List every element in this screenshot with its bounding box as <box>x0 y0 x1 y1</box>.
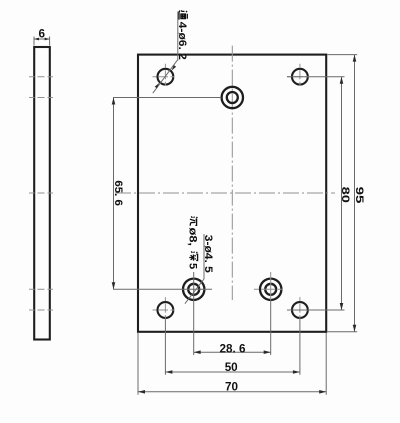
hole TR (ø6.2) <box>292 69 308 85</box>
dimension 65.6 text <box>112 180 124 206</box>
leader bottom text 沉ø8, 深5 <box>187 216 199 269</box>
leader bottom vertical line <box>203 234 205 279</box>
svg-text:95: 95 <box>353 187 365 204</box>
side view centerline middle <box>29 192 56 194</box>
dimension 80 arrow bottom <box>340 303 344 310</box>
counterbored hole bottom-right <box>260 279 281 300</box>
dimension 80 extension top <box>287 76 345 78</box>
svg-text:5: 5 <box>187 263 199 269</box>
plate front view outline <box>138 55 326 332</box>
leader bottom text 3-ø4.5 <box>202 235 214 273</box>
hole TL centerlines <box>153 76 179 78</box>
dimension 95 extension bottom <box>327 331 357 333</box>
svg-text:4-ø6. 2: 4-ø6. 2 <box>176 22 188 60</box>
dimension 28.6 arrow left <box>194 350 201 354</box>
side view centerline row1 <box>29 76 56 78</box>
extension line from hole BR down <box>299 319 301 375</box>
dimension 65.6 arrow bottom <box>112 282 116 289</box>
dimension 6 extension lines <box>33 37 35 46</box>
dimension 70 arrow left <box>138 390 145 394</box>
counterbored hole top (3-ø4.5 cb ø8) <box>222 87 243 108</box>
dimension 95 extension top <box>327 54 357 56</box>
extension line from hole BL down <box>164 319 166 375</box>
dimension 50 line <box>165 371 300 373</box>
svg-text:6: 6 <box>39 28 46 41</box>
counterbored hole bottom-right centerlines <box>254 288 287 290</box>
hole BL centerlines <box>153 309 179 311</box>
svg-text:70: 70 <box>225 380 238 394</box>
svg-text:80: 80 <box>339 187 351 203</box>
side view centerline row4 <box>29 288 56 290</box>
svg-text:28. 6: 28. 6 <box>220 342 246 356</box>
dimension 65.6 extension line top <box>113 97 221 99</box>
dimension 95 text <box>353 187 365 204</box>
dimension 65.6 arrow top <box>112 98 116 105</box>
dimension 50 arrow left <box>165 370 172 374</box>
dimension 50 arrow right <box>293 370 300 374</box>
leader top text 通4-ø6.2 <box>176 11 188 60</box>
dimension 95 arrow bottom <box>353 325 357 332</box>
dimension 95 arrow top <box>353 55 357 62</box>
dimension 6 arrow right <box>45 38 50 41</box>
hole BR centerlines <box>287 309 313 311</box>
dimension 6 line <box>34 38 50 40</box>
dimension 80 arrow top <box>340 77 344 84</box>
leader top diagonal through hole TL <box>153 59 178 93</box>
extension line from cb hole BL down <box>193 272 195 355</box>
hole BL (ø6.2) <box>158 302 174 318</box>
dimension 70 arrow right <box>319 390 326 394</box>
leader text top (4-ø6.2 thru) vertical line <box>177 12 179 61</box>
counterbored hole bottom-left <box>183 279 204 300</box>
extension line from plate corner BL down <box>137 333 139 395</box>
hole TL (ø6.2) <box>158 69 174 85</box>
side view centerline row5 <box>29 309 56 311</box>
dimension 80 line <box>341 77 343 310</box>
dimension 65.6 extension line bottom <box>113 288 212 290</box>
leader bottom diagonal through cb hole BL <box>185 279 204 304</box>
dimension 95 line <box>354 55 356 332</box>
hole BR (ø6.2) <box>292 302 308 318</box>
dimension 80 extension bottom <box>287 309 345 311</box>
svg-text:3-ø4. 5: 3-ø4. 5 <box>202 235 214 273</box>
svg-text:65. 6: 65. 6 <box>112 180 124 206</box>
dimension 28.6 line <box>194 351 271 353</box>
plate horizontal centerline <box>115 192 335 194</box>
leader top arrow lower <box>155 83 160 89</box>
dimension 6 arrow left <box>34 38 39 41</box>
leader top arrow upper <box>171 65 176 71</box>
svg-text:ø8,: ø8, <box>187 228 199 247</box>
extension line from cb hole BR down <box>270 300 272 355</box>
extension line from plate corner BR down <box>325 333 327 395</box>
plate vertical centerline <box>231 46 233 300</box>
dimension 70 line <box>138 391 326 393</box>
dimension 80 text <box>339 187 351 203</box>
dimension 65.6 line <box>113 98 115 290</box>
side view centerline row2 <box>29 97 56 99</box>
dimension 28.6 arrow right <box>264 350 271 354</box>
hole TR centerlines <box>287 76 313 78</box>
svg-text:50: 50 <box>225 360 238 374</box>
side view plate outline <box>34 47 50 340</box>
